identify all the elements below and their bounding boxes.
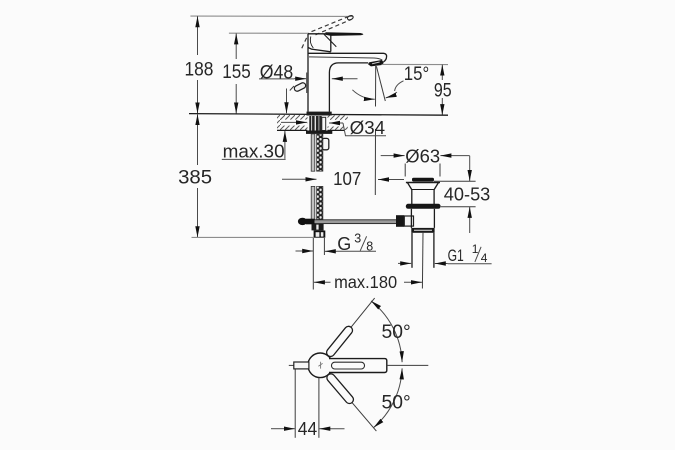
svg-text:40-53: 40-53 [444,184,491,204]
drain body upper [412,190,434,205]
label G3/8 underlined [337,232,376,254]
Ø63 dimension arrows [381,155,470,157]
erase channel for Ø34 left arrow [281,120,307,126]
G1 1/4 left OD arrow [398,262,411,264]
extension line for 95 top [382,63,449,65]
svg-text:4: 4 [481,251,488,265]
drain lever socket [404,216,413,226]
max.180 dimension with outward arrows [314,281,422,283]
G1 1/4 leader arrow [435,263,448,265]
open-handle tip oval [347,15,354,21]
dimension 95 vertical line with arrows [441,65,443,116]
Ø34 right arrow with leader to label [329,123,386,136]
G3/8 dimension arrows [296,250,338,252]
extension line top of 188 [190,15,353,17]
top view: lever bar [329,359,387,373]
top view: lower 50 deg arc [374,368,403,427]
handle base outline [308,34,336,52]
svg-text:G1: G1 [448,247,464,265]
locknut dark band under deck [306,131,332,134]
svg-text:44: 44 [298,419,317,439]
drain body lower [411,209,434,228]
svg-text:95: 95 [434,80,452,101]
threaded shank below deck [309,116,321,131]
drain tailpipe [412,233,434,268]
mounting nut bracket [322,138,329,149]
Ø34 left arrow [281,121,307,123]
top view: handle circle [308,353,333,378]
leader from 15 deg text [395,81,404,91]
extension line top of 155 [229,32,309,34]
tailpipe centre extension line [421,233,424,289]
svg-text:Ø63: Ø63 [405,147,440,167]
svg-text:107: 107 [333,169,361,189]
top view: upper rotated lever ray [325,296,378,359]
closed lever stick (filled) [325,32,363,36]
svg-text:188: 188 [185,59,214,80]
pull rod below deck [311,134,315,222]
drain pop-up plug knob [412,178,434,182]
erase channel for Ø34 arrow [327,120,348,127]
Ø48 right arrow inside body [332,78,358,80]
svg-text:max.30: max.30 [223,142,285,162]
body right edge [328,73,330,112]
dimension 107 right arrow [378,179,404,181]
top view: circle centre mark [318,362,322,369]
top view: lever slot [332,362,365,369]
hose end neck [312,224,324,230]
vertical reference line from outlet [374,66,376,195]
svg-text:3: 3 [354,232,361,246]
44 extension lines [295,370,319,438]
max.30 top arrow at deck [286,89,288,114]
linkage ball joint [298,218,315,225]
40-53 extension lines [434,181,476,206]
svg-text:max.180: max.180 [334,272,397,292]
svg-text:385: 385 [178,166,212,188]
top view: pull rod stub [289,362,309,369]
15 deg arc with arrows [352,90,374,100]
deck hatch left [277,115,308,130]
Ø48 extension tick at body left [306,73,308,94]
extension line bottom of 385 [192,236,314,238]
drain flange [406,183,440,190]
pull-rod knob at body left [290,82,307,92]
svg-text:50°: 50° [382,322,411,343]
max.30 bottom arrow and leader [284,131,286,159]
dimension 107 left arrow [282,178,317,180]
top view: upper 50 deg arc [371,301,402,362]
44 dimension arrows [271,428,345,430]
15 deg tilted stream line [376,66,385,101]
faucet open-handle dashed outline [302,17,351,48]
top view: lower rotated lever ray [325,372,379,433]
spout top edge [308,53,387,62]
svg-text:155: 155 [222,62,251,83]
deck hatch right [328,115,348,130]
top view: zero reference line [387,364,429,366]
G3/8 hex nut [314,231,326,238]
faucet body left edge [307,34,309,112]
pop-up linkage bar [305,220,397,224]
dimension 188 vertical line with arrows [197,16,199,113]
svg-text:50°: 50° [382,392,411,413]
40-53 dimension line [469,156,471,233]
drain lower washer (dark) [411,228,434,233]
svg-text:15°: 15° [404,64,429,85]
countertop deck line [189,114,448,116]
spout underside curve [329,63,368,73]
aerator outlet (dark) [368,60,384,66]
drain gasket ring (dark) [406,204,441,209]
dimension 385 vertical line with arrows [197,114,199,237]
label G1 1/4 underlined [448,242,492,265]
linkage right end block [396,215,404,227]
braided hose upper segment [317,134,323,171]
svg-text:Ø48: Ø48 [260,62,293,83]
faucet base plate (dark) [307,112,332,116]
deck bottom edge left [277,129,307,131]
shank side tab [322,117,326,130]
braided hose lower segment [317,186,323,219]
svg-text:Ø34: Ø34 [350,118,386,138]
Ø63 extension ticks [405,164,440,177]
deck bottom edge right [328,129,345,131]
dimension 155 vertical line with arrows [235,33,237,113]
spout second line [309,57,382,60]
extension lines below hose nut [312,238,314,290]
